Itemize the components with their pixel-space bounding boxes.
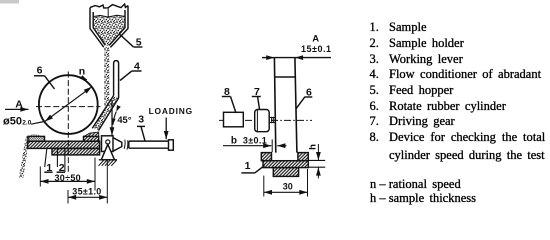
svg-text:6: 6 [37, 65, 43, 77]
svg-text:45°: 45° [117, 115, 131, 125]
svg-text:ø50: ø50 [3, 115, 22, 127]
svg-text:7: 7 [254, 86, 260, 98]
svg-text:1: 1 [46, 162, 52, 174]
svg-text:30÷50: 30÷50 [55, 173, 81, 183]
svg-text:1: 1 [245, 160, 251, 172]
svg-text:2.0: 2.0 [22, 120, 31, 127]
svg-text:LOADING: LOADING [149, 106, 193, 116]
svg-text:n: n [79, 66, 85, 78]
svg-text:30: 30 [283, 181, 293, 191]
svg-text:5: 5 [136, 36, 142, 48]
svg-text:A: A [312, 33, 319, 44]
svg-text:3±0.1: 3±0.1 [243, 135, 267, 145]
svg-text:8: 8 [224, 86, 230, 98]
svg-text:4: 4 [134, 61, 140, 73]
svg-text:b: b [231, 135, 237, 146]
svg-text:6: 6 [306, 87, 312, 99]
svg-text:3: 3 [138, 113, 144, 125]
svg-text:15±0.1: 15±0.1 [301, 44, 331, 54]
svg-text:h: h [307, 144, 318, 150]
svg-text:35±1.0: 35±1.0 [72, 187, 101, 197]
svg-text:A: A [15, 98, 23, 110]
